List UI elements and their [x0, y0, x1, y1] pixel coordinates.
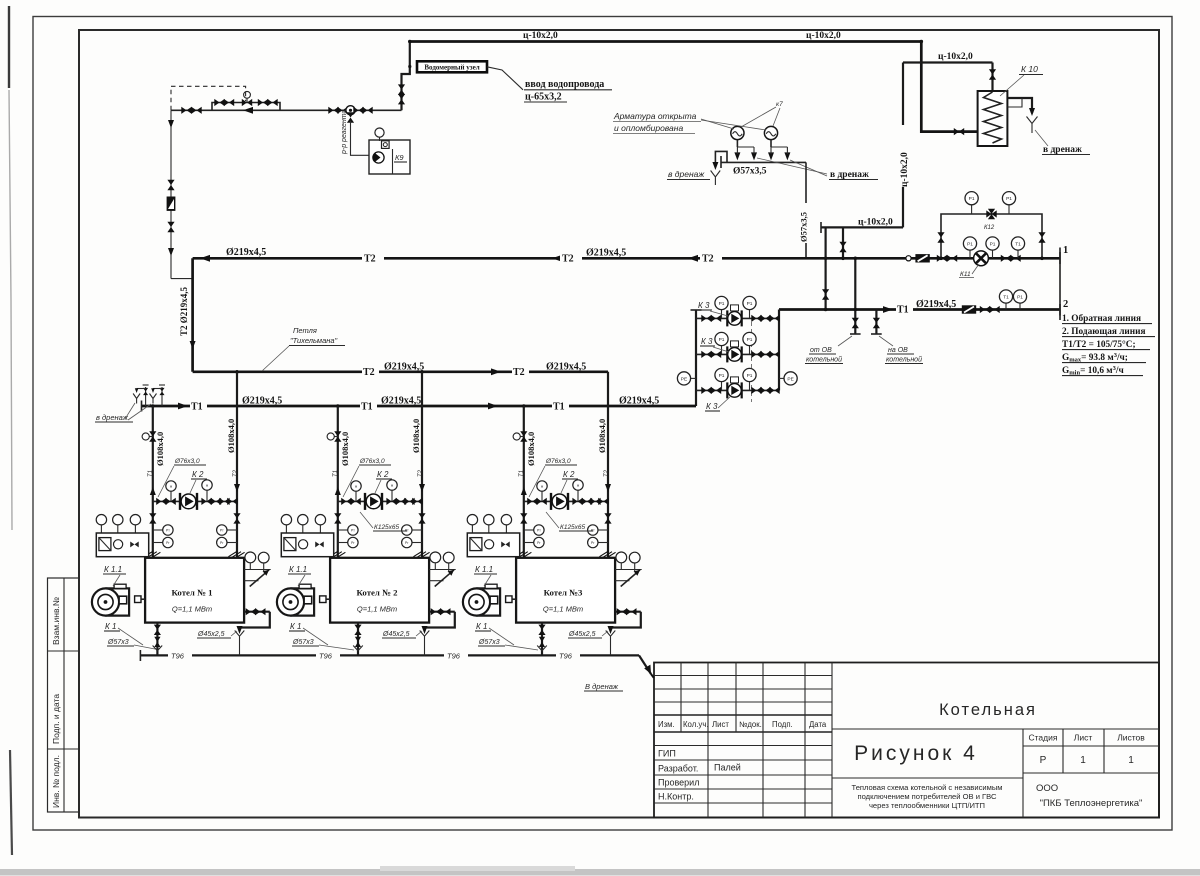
svg-text:Листов: Листов — [1117, 733, 1145, 743]
svg-text:Т1: Т1 — [148, 470, 154, 477]
svg-text:К12: К12 — [984, 225, 995, 231]
svg-text:К11: К11 — [960, 271, 971, 278]
svg-text:ц-10х2,0: ц-10х2,0 — [900, 152, 910, 187]
svg-text:Ø45х2,5: Ø45х2,5 — [197, 631, 225, 638]
svg-text:в дренаж: в дренаж — [668, 169, 705, 179]
label Т2 loop left — [362, 366, 379, 379]
svg-text:В дренаж: В дренаж — [585, 682, 619, 691]
svg-text:Арматура открыта: Арматура открыта — [613, 111, 697, 121]
svg-text:Р1: Р1 — [719, 373, 725, 379]
scheme description — [851, 783, 1002, 810]
wire water inlet diagonal ввод водопровода — [487, 67, 523, 90]
wire Tichelmann loop header — [193, 370, 608, 373]
valve between mains — [822, 289, 829, 299]
svg-text:ГИП: ГИП — [658, 749, 676, 759]
wire T2 return main — [193, 257, 1060, 260]
valve pair line 1 right — [1001, 255, 1011, 262]
svg-text:Т1: Т1 — [553, 402, 565, 413]
drain arrow В дренаж — [639, 655, 651, 674]
gauge РЕ right — [779, 377, 785, 379]
svg-text:Т96: Т96 — [447, 652, 461, 661]
flow arrow left on manifold — [243, 107, 253, 114]
wire T1 boiler header — [142, 405, 697, 408]
filter on line 1 — [915, 254, 929, 262]
svg-text:Ø57х3: Ø57х3 — [478, 639, 500, 646]
gauges Т1 Р1 on line 2 — [1005, 303, 1007, 310]
svg-text:через теплообменники ЦТП/ИТП: через теплообменники ЦТП/ИТП — [869, 801, 985, 810]
pump branch 2 — [696, 332, 780, 362]
tick mark line 2 end — [1059, 304, 1061, 316]
svg-text:К125х65: К125х65 — [560, 524, 586, 531]
svg-text:Котел № 1: Котел № 1 — [171, 588, 212, 598]
svg-text:Котел №3: Котел №3 — [544, 588, 583, 598]
wire water meter riser — [402, 42, 410, 111]
drain pair at header start — [133, 385, 165, 406]
flow arrow right — [883, 306, 893, 313]
svg-text:К 10: К 10 — [1021, 64, 1038, 74]
label Т2 loop right — [512, 366, 529, 379]
svg-text:Ø219х4,5: Ø219х4,5 — [384, 362, 424, 373]
valve pair line 2 — [980, 306, 990, 313]
svg-text:К 1: К 1 — [105, 622, 116, 631]
label Т96 1 — [168, 650, 192, 661]
svg-text:Т1: Т1 — [361, 402, 373, 413]
flow arrow on loop — [491, 368, 501, 375]
svg-text:Q=1,1 МВт: Q=1,1 МВт — [543, 605, 583, 614]
svg-text:Стадия: Стадия — [1029, 733, 1058, 743]
svg-text:Т2: Т2 — [513, 367, 525, 378]
svg-text:Петля: Петля — [293, 326, 317, 335]
svg-text:к7: к7 — [776, 101, 783, 108]
svg-text:К125х65: К125х65 — [374, 524, 400, 531]
safety valves header — [721, 161, 806, 163]
svg-text:РЕ: РЕ — [787, 376, 793, 382]
wire bypass loop over meter — [941, 214, 1042, 258]
svg-text:К 1: К 1 — [290, 622, 301, 631]
svg-text:1: 1 — [1128, 755, 1134, 766]
stage cells — [1029, 733, 1146, 743]
svg-text:Палей: Палей — [714, 763, 741, 773]
title block outer — [654, 663, 1159, 818]
svg-text:Р1: Р1 — [747, 373, 753, 379]
svg-text:Ø57х3: Ø57х3 — [107, 639, 129, 646]
valves on bypass drops — [937, 232, 944, 242]
svg-text:Т2: Т2 — [562, 254, 574, 265]
svg-text:Ø45х2,5: Ø45х2,5 — [568, 631, 596, 638]
wire reagent feed line — [351, 121, 370, 156]
wire ОВ tap from T2 main — [854, 258, 856, 309]
svg-text:подключением потребителей ОВ: подключением потребителей ОВ и ГВС — [858, 792, 997, 801]
svg-text:К 1.1: К 1.1 — [475, 565, 493, 574]
svg-text:Р1: Р1 — [990, 242, 996, 248]
svg-text:Котел № 2: Котел № 2 — [356, 588, 398, 598]
svg-text:"ПКБ Теплоэнергетика": "ПКБ Теплоэнергетика" — [1040, 798, 1143, 809]
flow arrows on T2 main — [200, 255, 210, 262]
valve on HX top riser — [989, 69, 996, 79]
svg-text:Р1: Р1 — [747, 337, 753, 343]
svg-text:К 3: К 3 — [706, 402, 718, 411]
stub на ОВ котельной — [875, 310, 877, 335]
svg-text:Ø219х4,5: Ø219х4,5 — [226, 247, 266, 258]
wire K3 discharge header — [778, 310, 780, 391]
boiler unit 1 — [92, 372, 271, 656]
svg-text:котельной: котельной — [886, 356, 922, 364]
svg-text:Ø57х3: Ø57х3 — [292, 639, 314, 646]
svg-text:Т1/Т2 = 105/75°С;: Т1/Т2 = 105/75°С; — [1062, 339, 1136, 350]
svg-text:Т2: Т2 — [604, 469, 610, 477]
wire raised bridge segment — [212, 103, 280, 111]
svg-text:Ø219х4,5: Ø219х4,5 — [619, 396, 659, 407]
svg-text:Р1: Р1 — [719, 301, 725, 307]
wire supply line 2 — [779, 308, 1060, 311]
svg-text:Р: Р — [1040, 755, 1047, 766]
svg-text:Т2 Ø219х4,5: Т2 Ø219х4,5 — [179, 286, 189, 336]
flow arrow down — [168, 120, 174, 128]
gauges P1 P1 T1 on line 1 — [969, 250, 971, 258]
svg-text:Лист: Лист — [712, 720, 729, 729]
svg-text:Ø219х4,5: Ø219х4,5 — [546, 362, 586, 373]
reagent unit cross — [328, 107, 338, 114]
svg-text:Ø76х3,0: Ø76х3,0 — [174, 458, 200, 465]
svg-text:Ø108х4,0: Ø108х4,0 — [411, 419, 421, 453]
svg-text:№док.: №док. — [739, 720, 762, 729]
svg-text:Т1: Т1 — [1003, 295, 1009, 301]
svg-text:Ø108х4,0: Ø108х4,0 — [597, 419, 607, 453]
svg-text:2. Подающая линия: 2. Подающая линия — [1062, 327, 1146, 337]
svg-text:1: 1 — [1080, 755, 1086, 766]
tick mark line 1 end — [1059, 252, 1061, 264]
label Т1 header right — [552, 400, 569, 413]
svg-text:1: 1 — [1063, 245, 1068, 256]
svg-text:Т1: Т1 — [897, 305, 909, 316]
svg-text:2: 2 — [1063, 299, 1068, 310]
svg-text:Q=1,1 МВт: Q=1,1 МВт — [172, 605, 212, 614]
svg-text:Ø76х3,0: Ø76х3,0 — [545, 458, 571, 465]
pump К11 — [974, 251, 989, 266]
svg-text:К 1.1: К 1.1 — [104, 565, 122, 574]
title block right grid — [832, 729, 1159, 818]
title block header texts — [658, 720, 827, 729]
valve pair left — [181, 107, 191, 114]
svg-text:Ø76х3,0: Ø76х3,0 — [359, 458, 385, 465]
svg-text:К 2: К 2 — [377, 470, 389, 479]
valve pair line 1 — [937, 255, 947, 262]
wire K3 suction header — [695, 310, 697, 406]
stub от ОВ котельной — [854, 310, 856, 335]
gauge on K9 — [375, 128, 384, 137]
label Т2 main right — [700, 252, 722, 265]
label Т2 main mid1 — [362, 252, 384, 265]
pump K9 — [373, 152, 384, 163]
flow measuring device — [986, 210, 996, 217]
svg-text:котельной: котельной — [806, 356, 842, 364]
safety valve 1 — [731, 126, 757, 160]
boiler unit 2 — [277, 372, 456, 656]
legend text block — [1062, 313, 1155, 377]
pump branch 3 — [696, 368, 780, 398]
valve on column lower — [167, 222, 174, 232]
label Т1 header mid — [360, 400, 377, 413]
svg-text:Н.Контр.: Н.Контр. — [658, 792, 694, 802]
wire ГВС header — [821, 226, 903, 228]
svg-text:Ø108х4,0: Ø108х4,0 — [526, 432, 536, 466]
wire HX drain outlet — [1007, 98, 1032, 113]
svg-text:ц-10х2,0: ц-10х2,0 — [938, 52, 973, 62]
svg-text:Т2: Т2 — [418, 469, 424, 477]
svg-text:Т96: Т96 — [319, 652, 333, 661]
boiler unit 3 — [463, 372, 642, 656]
funnel drain HX — [1027, 117, 1038, 134]
svg-text:Р1: Р1 — [967, 242, 973, 248]
pump branch 1 — [696, 296, 780, 326]
svg-text:Ø57х3,5: Ø57х3,5 — [733, 167, 767, 177]
label Т96 3 — [444, 650, 468, 661]
valve on column — [167, 180, 174, 190]
valve pair on bridge right — [258, 99, 268, 106]
label Ø57х3,5 vertical — [797, 203, 809, 243]
svg-text:на ОВ: на ОВ — [888, 347, 908, 354]
wire T2 downcomer to loop — [191, 258, 194, 372]
svg-text:Т1: Т1 — [333, 470, 339, 477]
scan artifact bottom strip — [0, 869, 1200, 876]
valve pair on bridge — [214, 99, 224, 106]
label Т1 on line 2 — [896, 303, 913, 316]
flow arrow down lower — [168, 248, 174, 256]
dashed drain between pumps — [751, 322, 753, 402]
valve on HX inlet — [954, 128, 964, 135]
svg-text:Проверил: Проверил — [658, 778, 699, 788]
svg-text:Взам.инв.№: Взам.инв.№ — [51, 597, 61, 645]
svg-text:р-р реагента: р-р реагента — [341, 109, 348, 155]
svg-text:Т1: Т1 — [1015, 242, 1021, 248]
wire softened water column — [170, 110, 172, 278]
svg-text:К 1.1: К 1.1 — [289, 565, 307, 574]
svg-text:Подп. и дата: Подп. и дата — [51, 694, 61, 744]
svg-text:К 1: К 1 — [476, 622, 487, 631]
svg-text:Ø45х2,5: Ø45х2,5 — [382, 631, 410, 638]
svg-text:Разработ.: Разработ. — [658, 764, 698, 774]
scan artifact left ticks — [8, 6, 10, 88]
svg-text:ц-65х3,2: ц-65х3,2 — [525, 92, 562, 103]
flow arrows on T1 header — [178, 403, 188, 410]
gauges P1 P1 on bypass — [971, 205, 973, 214]
label Т2 Ø219х4,5 vertical — [178, 281, 190, 337]
wire ГВС riser down — [902, 63, 904, 228]
svg-text:Ø219х4,5: Ø219х4,5 — [916, 299, 956, 310]
heat exchanger K10 — [978, 91, 1008, 146]
valve pair on riser — [398, 84, 405, 94]
svg-text:ООО: ООО — [1036, 783, 1058, 794]
svg-text:К 3: К 3 — [701, 337, 713, 346]
wire top cold-water line ц-10х2,0 — [410, 42, 978, 132]
svg-text:"Тихельмана": "Тихельмана" — [290, 336, 338, 345]
svg-text:РЕ: РЕ — [681, 376, 687, 382]
wire drop with valve to T2 main — [842, 227, 844, 258]
svg-text:ц-10х2,0: ц-10х2,0 — [806, 31, 841, 41]
svg-text:К9: К9 — [395, 153, 404, 162]
svg-text:К 2: К 2 — [192, 470, 204, 479]
svg-text:Лист: Лист — [1074, 733, 1093, 743]
label Т96 4 — [556, 650, 580, 661]
safety valve 2 — [764, 126, 790, 160]
svg-text:ц-10х2,0: ц-10х2,0 — [858, 218, 893, 228]
svg-text:Ø108х4,0: Ø108х4,0 — [340, 432, 350, 466]
svg-text:Ø219х4,5: Ø219х4,5 — [381, 396, 421, 407]
svg-text:ц-10х2,0: ц-10х2,0 — [523, 31, 558, 41]
svg-text:К 2: К 2 — [563, 470, 575, 479]
svg-text:Т1: Т1 — [191, 402, 203, 413]
svg-text:1. Обратная линия: 1. Обратная линия — [1062, 313, 1141, 324]
wire hot water return line to HX — [903, 63, 993, 92]
filter on column — [167, 197, 176, 211]
svg-text:Т96: Т96 — [171, 652, 185, 661]
wire boiler drain main T96 — [140, 654, 639, 656]
dosing unit box K9 — [369, 140, 410, 174]
svg-text:Т2: Т2 — [363, 367, 375, 378]
boiler 1 bottom drain — [153, 623, 163, 656]
safety valve drain left — [715, 151, 727, 167]
wire boundary vertical — [1059, 248, 1061, 321]
svg-text:Ø219х4,5: Ø219х4,5 — [586, 248, 626, 259]
control valve with handle — [242, 99, 252, 106]
svg-text:Т96: Т96 — [559, 652, 573, 661]
svg-text:в дренаж: в дренаж — [96, 413, 129, 422]
filter on line 2 — [962, 305, 976, 313]
gauge РЕ left — [691, 377, 697, 379]
label Т1 header left — [190, 400, 207, 413]
svg-text:Дата: Дата — [809, 720, 827, 729]
svg-text:Ø57х3,5: Ø57х3,5 — [799, 212, 809, 242]
left stamp column boxes — [48, 578, 80, 812]
svg-text:Р1: Р1 — [719, 337, 725, 343]
label ц-10х2,0 vertical — [896, 125, 910, 187]
svg-text:Р1: Р1 — [1017, 295, 1023, 301]
node connection circle — [906, 256, 911, 261]
boiler 2 bottom drain — [353, 623, 363, 656]
svg-text:Р1: Р1 — [1006, 196, 1012, 202]
svg-text:Инв. № подл.: Инв. № подл. — [51, 755, 61, 808]
svg-text:Р1: Р1 — [969, 196, 975, 202]
label Т96 2 — [316, 650, 340, 661]
wire dashed bypass — [171, 86, 246, 110]
svg-text:Котельная: Котельная — [939, 701, 1037, 719]
svg-text:Ø219х4,5: Ø219х4,5 — [242, 396, 282, 407]
svg-text:Подп.: Подп. — [772, 720, 793, 729]
svg-text:Рисунок 4: Рисунок 4 — [854, 742, 978, 765]
wire softening manifold — [171, 109, 402, 111]
wire column to T2 downcomer — [171, 278, 193, 280]
svg-text:К 3: К 3 — [698, 301, 710, 310]
wire drop to T2 main plain — [824, 227, 826, 309]
wire safety drain downcomer Ø57х3,5 — [805, 162, 807, 258]
svg-text:Q=1,1 МВт: Q=1,1 МВт — [357, 605, 397, 614]
title block role texts — [658, 749, 741, 802]
svg-text:Тепловая схема котельной с: Тепловая схема котельной с независимым — [851, 783, 1002, 792]
svg-text:Ø108х4,0: Ø108х4,0 — [226, 419, 236, 453]
svg-text:и опломбирована: и опломбирована — [614, 123, 683, 133]
svg-text:Кол.уч.: Кол.уч. — [683, 720, 709, 729]
svg-text:Т2: Т2 — [233, 469, 239, 477]
svg-text:Т1: Т1 — [519, 470, 525, 477]
svg-text:в дренаж: в дренаж — [830, 170, 869, 180]
svg-text:Т2: Т2 — [364, 254, 376, 265]
svg-text:Р1: Р1 — [747, 301, 753, 307]
svg-text:от ОВ: от ОВ — [810, 347, 832, 354]
label Т2 main mid2 — [560, 252, 582, 265]
boiler 3 bottom drain — [537, 623, 547, 656]
svg-text:ввод водопровода: ввод водопровода — [525, 79, 604, 90]
svg-text:в дренаж: в дренаж — [1043, 145, 1082, 155]
svg-text:Т2: Т2 — [702, 254, 714, 265]
svg-text:Водомерный узел: Водомерный узел — [424, 64, 479, 72]
water meter unit box Водомерный узел — [417, 61, 487, 72]
svg-text:Ø108х4,0: Ø108х4,0 — [155, 432, 165, 466]
svg-text:Изм.: Изм. — [658, 720, 675, 729]
